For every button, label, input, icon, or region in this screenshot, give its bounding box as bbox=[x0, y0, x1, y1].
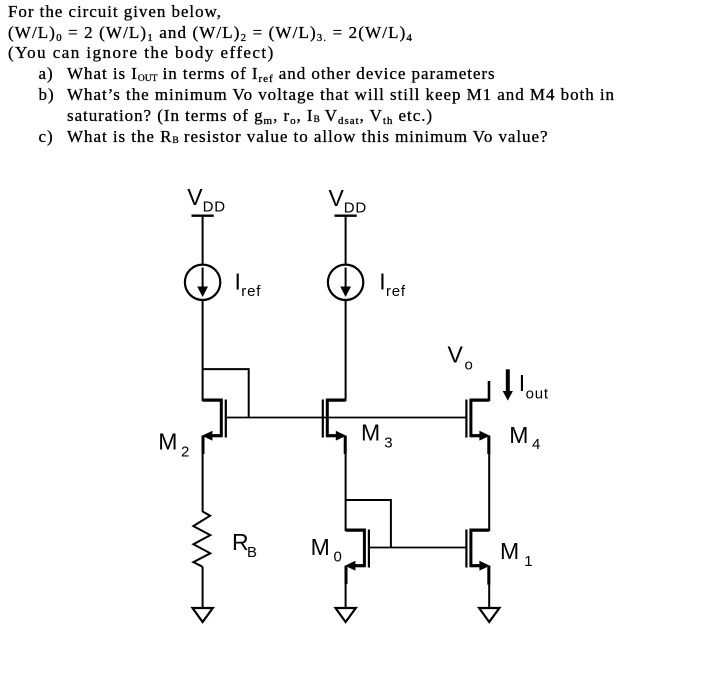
svg-text:2: 2 bbox=[181, 444, 190, 461]
label RB bbox=[232, 529, 258, 561]
svg-text:M: M bbox=[158, 429, 177, 455]
wire gate bus M0-M1 bbox=[369, 547, 467, 549]
wire M0 source to ground bbox=[345, 566, 348, 584]
svg-text:I: I bbox=[519, 370, 525, 396]
svg-text:DD: DD bbox=[203, 198, 226, 215]
node VDD (right rail label) bbox=[329, 185, 367, 216]
transistor M2 bbox=[202, 399, 226, 441]
wire gate bus M2-M3-M4 bbox=[226, 417, 467, 419]
node Vo label bbox=[448, 341, 474, 373]
wire M2 source to RB bbox=[202, 436, 205, 454]
label Iref (right) bbox=[379, 268, 406, 300]
transistor M3 bbox=[323, 399, 347, 441]
svg-text:V: V bbox=[187, 184, 203, 210]
ground (right) bbox=[479, 608, 499, 622]
svg-text:DD: DD bbox=[344, 199, 367, 216]
current arrow Iout bbox=[503, 369, 513, 400]
svg-text:4: 4 bbox=[532, 436, 541, 453]
current source Iref (left) bbox=[185, 265, 220, 300]
wire Iref2 to M3 drain bbox=[345, 300, 347, 401]
wire M3 source to M0 drain bbox=[344, 436, 347, 454]
svg-text:out: out bbox=[526, 385, 549, 402]
ground (middle) bbox=[336, 608, 356, 622]
svg-text:3: 3 bbox=[384, 435, 393, 452]
wire RB to ground bbox=[202, 567, 204, 609]
ground (left) bbox=[193, 608, 213, 622]
svg-text:B: B bbox=[247, 544, 258, 561]
svg-text:M: M bbox=[500, 538, 519, 564]
power VDD bar left bbox=[192, 214, 214, 216]
svg-text:V: V bbox=[448, 341, 464, 367]
label M4 bbox=[509, 422, 541, 453]
wire VDD1 to current source bbox=[202, 216, 204, 265]
wire M2 gate-drain loop bbox=[203, 369, 249, 417]
svg-text:o: o bbox=[465, 356, 474, 373]
transistor M4 bbox=[466, 399, 490, 441]
label M0 bbox=[311, 534, 343, 566]
svg-text:I: I bbox=[379, 268, 385, 294]
label M1 bbox=[500, 538, 533, 570]
label M3 bbox=[361, 420, 393, 452]
label Iref (left) bbox=[235, 268, 262, 300]
node VDD (left rail label) bbox=[187, 184, 226, 215]
svg-text:V: V bbox=[329, 185, 345, 211]
resistor RB bbox=[193, 512, 210, 567]
svg-text:ref: ref bbox=[241, 283, 261, 300]
wire Iref1 to M2 drain bbox=[202, 300, 204, 401]
wire M4 source to M1 drain bbox=[487, 436, 490, 454]
label Iout bbox=[519, 370, 549, 402]
current source Iref (right) bbox=[328, 265, 363, 300]
transistor M0 bbox=[345, 529, 369, 571]
wire M4 drain stub (Vo terminal) bbox=[488, 381, 491, 401]
transistor M1 bbox=[466, 529, 490, 571]
svg-text:M: M bbox=[361, 420, 380, 446]
label M2 bbox=[158, 429, 190, 461]
svg-text:M: M bbox=[311, 534, 330, 560]
svg-text:1: 1 bbox=[524, 553, 533, 570]
wire M0 gate-drain loop bbox=[346, 500, 391, 548]
svg-text:I: I bbox=[235, 268, 241, 294]
wire VDD2 to current source bbox=[345, 216, 347, 265]
svg-text:ref: ref bbox=[386, 283, 406, 300]
svg-text:M: M bbox=[509, 422, 528, 448]
power VDD bar right bbox=[335, 214, 357, 216]
svg-text:0: 0 bbox=[334, 548, 343, 565]
wire M1 source to ground bbox=[487, 566, 490, 585]
